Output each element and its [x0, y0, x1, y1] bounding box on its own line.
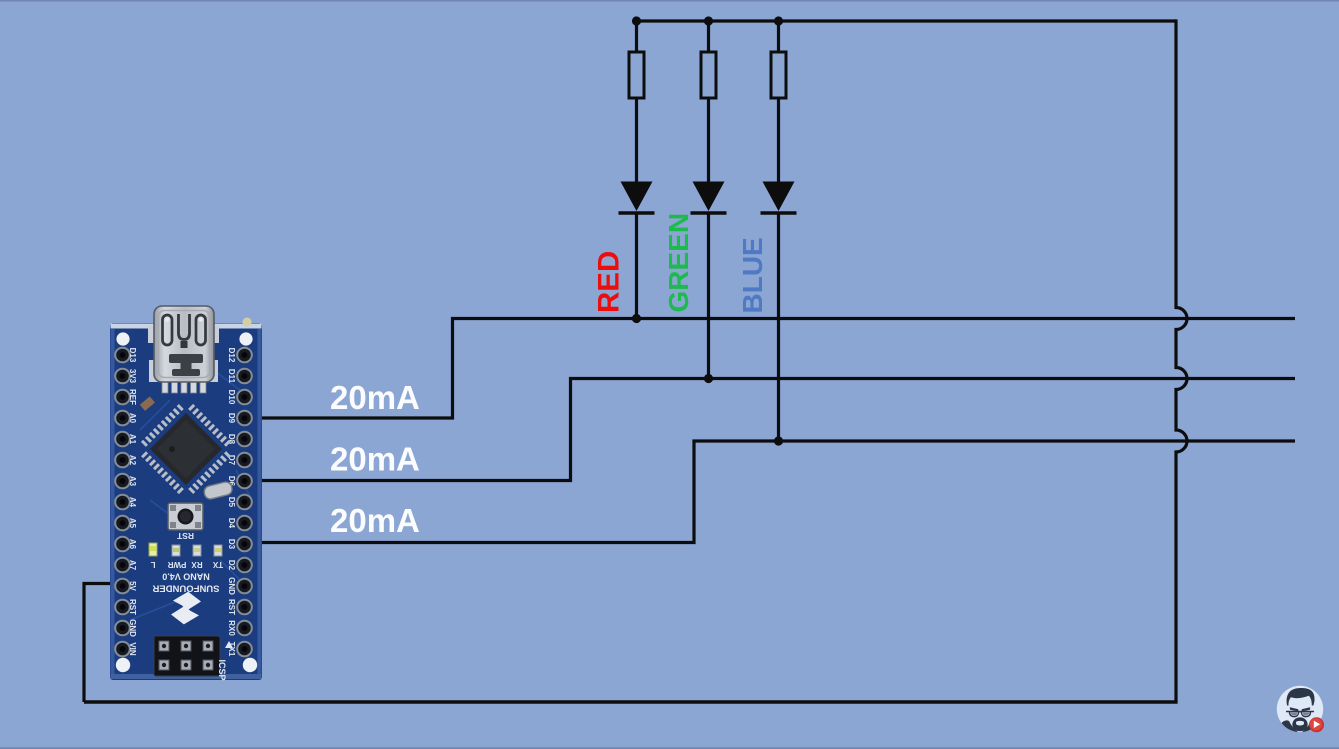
wire: red branch vertical	[635, 21, 638, 319]
svg-text:RST: RST	[176, 531, 194, 541]
junction dot: top rail / R3	[774, 16, 783, 25]
eyebrows	[1290, 707, 1299, 711]
svg-text:D3: D3	[227, 539, 236, 550]
svg-text:GND: GND	[227, 577, 236, 595]
SunFounder S logo	[170, 591, 201, 626]
svg-text:D10: D10	[227, 390, 236, 405]
youtube play badge	[1309, 717, 1324, 732]
wire: top +V rail	[637, 19, 1177, 22]
svg-text:SUNFOUNDER: SUNFOUNDER	[152, 583, 219, 594]
svg-text:RED: RED	[593, 251, 626, 313]
corner hole top-left	[116, 332, 129, 345]
left pin labels	[128, 348, 137, 656]
wire: bottom ground return rail	[84, 700, 1178, 703]
silkscreen: NANO V4.0 / SUNFOUNDER (upside down)	[152, 572, 219, 594]
svg-text:A5: A5	[128, 518, 137, 529]
svg-text:D4: D4	[227, 518, 236, 529]
corner hole top-right	[239, 332, 252, 345]
resistor R3 (blue)	[771, 52, 786, 98]
svg-text:D13: D13	[128, 348, 137, 363]
junction dot: green LED cathode on D6 net	[704, 374, 713, 383]
LED D1 red: diode triangle + cathode bar	[619, 182, 655, 214]
mini-USB connector J1	[148, 306, 219, 393]
resistor R1 (red)	[629, 52, 644, 98]
PCB body	[110, 318, 262, 681]
ICSP header J2	[154, 636, 233, 681]
right pin header row	[237, 348, 252, 657]
svg-text:RX0: RX0	[227, 620, 236, 636]
junction dot: blue LED cathode on D3 net	[774, 436, 783, 445]
svg-text:RST: RST	[227, 599, 236, 615]
channel avatar logo (bottom right)	[1276, 686, 1324, 737]
svg-text:A4: A4	[128, 497, 137, 508]
svg-text:L: L	[150, 560, 155, 569]
reset button SW1	[168, 503, 203, 541]
wire: GND lead from Arduino left side down to bottom rail	[84, 584, 118, 703]
svg-text:D9: D9	[227, 413, 236, 424]
resistor R2 (green)	[701, 52, 716, 98]
wire: D9 signal to red LED net	[240, 319, 1295, 419]
svg-text:VIN: VIN	[128, 642, 137, 656]
corner hole bottom-left	[116, 658, 130, 672]
svg-text:A2: A2	[128, 455, 137, 466]
svg-text:RX: RX	[191, 560, 203, 569]
wire: D6 signal to green LED net	[240, 379, 1295, 481]
svg-text:GREEN: GREEN	[663, 213, 694, 313]
junction dot: top rail / R1	[632, 16, 641, 25]
svg-text:REF: REF	[128, 389, 137, 405]
svg-text:TX: TX	[212, 560, 223, 569]
svg-text:A0: A0	[128, 413, 137, 424]
svg-text:D12: D12	[227, 348, 236, 363]
LED D2 green: diode triangle + cathode bar	[691, 182, 727, 214]
bench shape	[167, 354, 203, 376]
ATmega chip (45deg) with pin stubs	[143, 406, 228, 491]
wire: D3 signal to blue LED net	[240, 441, 1295, 543]
svg-text:GND: GND	[128, 619, 137, 637]
right pin labels	[227, 348, 236, 657]
svg-text:20mA: 20mA	[330, 502, 420, 539]
svg-text:A1: A1	[128, 434, 137, 445]
svg-text:NANO V4.0: NANO V4.0	[162, 572, 210, 582]
moustache and goatee	[1292, 717, 1307, 731]
status LEDs L/PWR/RX/TX	[149, 543, 223, 569]
small capacitor	[140, 396, 155, 410]
left pin header row	[115, 348, 130, 657]
centre U slot	[179, 314, 190, 340]
svg-text:D5: D5	[227, 497, 236, 508]
svg-text:PWR: PWR	[167, 560, 186, 569]
wire: right vertical drop with hops over three signal wires	[1176, 19, 1187, 702]
svg-text:3V3: 3V3	[128, 369, 137, 384]
glasses lens tint	[1291, 712, 1309, 715]
svg-text:RST: RST	[128, 599, 137, 615]
svg-text:A3: A3	[128, 476, 137, 487]
junction dot: top rail / R2	[704, 16, 713, 25]
glasses	[1286, 711, 1314, 718]
hair	[1287, 688, 1315, 706]
svg-text:D11: D11	[227, 369, 236, 384]
svg-text:20mA: 20mA	[330, 441, 420, 478]
svg-text:A7: A7	[128, 560, 137, 571]
wire: blue branch vertical	[777, 21, 780, 441]
wire: green branch vertical	[707, 21, 710, 379]
Arduino Nano board U1	[110, 306, 262, 681]
svg-text:A6: A6	[128, 539, 137, 550]
svg-text:ICSP: ICSP	[217, 659, 227, 680]
corner hole bottom-right	[243, 658, 257, 672]
svg-text:D2: D2	[227, 560, 236, 571]
svg-text:BLUE: BLUE	[737, 237, 768, 313]
shoulders	[1276, 720, 1300, 737]
crystal oscillator Y1	[203, 481, 233, 500]
junction dot: red LED cathode on D9 net	[632, 314, 641, 323]
svg-text:5V: 5V	[128, 581, 137, 591]
LED D3 blue: diode triangle + cathode bar	[761, 182, 797, 214]
svg-text:20mA: 20mA	[330, 379, 420, 416]
punched slots	[163, 315, 173, 345]
